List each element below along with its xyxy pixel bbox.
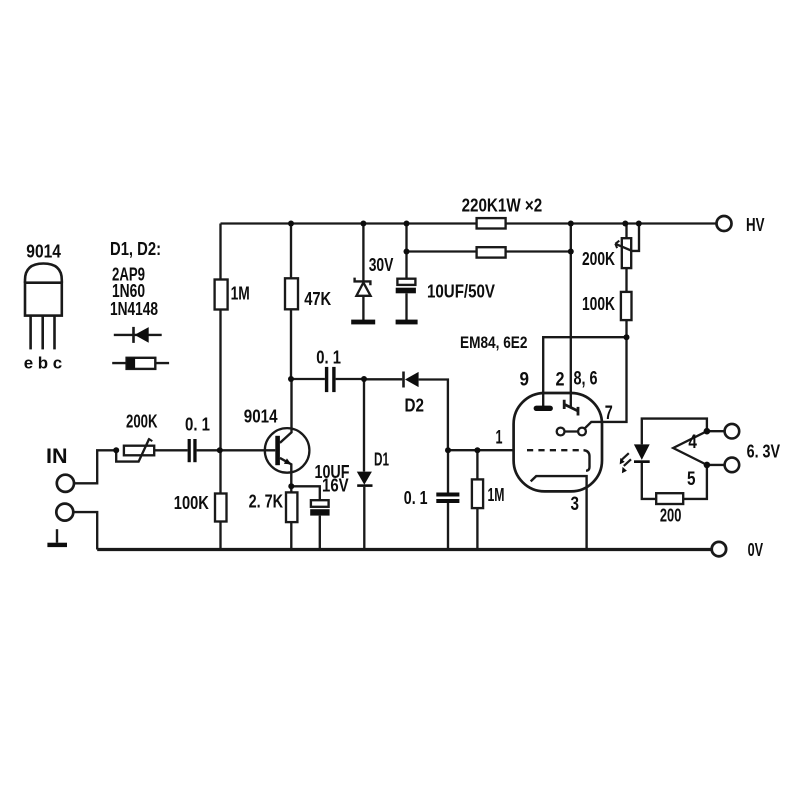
potentiometer 200K wiper arrow (615, 224, 639, 251)
svg-text:1N60: 1N60 (112, 281, 145, 301)
potentiometer 200K body (622, 238, 631, 268)
resistor 220K1W (lower) (477, 247, 506, 257)
capacitor 10UF/50V bottom plate (396, 288, 416, 294)
tube EM84 envelope (514, 393, 602, 491)
resistor 1M (bias) (215, 280, 228, 310)
node input pot (113, 447, 119, 453)
legend diode symbol triangle (135, 327, 149, 343)
diode D2 triangle (405, 372, 419, 387)
svg-text:1M: 1M (231, 284, 250, 304)
potentiometer 200K (input) wiper (116, 439, 149, 462)
tube grid hook (584, 450, 590, 471)
wire collector to 0.1 cap (291, 378, 325, 380)
diode D1 triangle (357, 472, 372, 485)
node 47K top (288, 221, 294, 227)
wire emitter to ground rail through 2.7K (290, 486, 292, 549)
wire pot to coupling cap (154, 449, 187, 451)
legend package diode cathode band (127, 358, 136, 369)
capacitor 0.1 (grid) wire (447, 450, 449, 492)
svg-text:1N4148: 1N4148 (110, 299, 158, 319)
junction dots (113, 221, 710, 490)
legend diode symbol wire (114, 334, 162, 336)
ground stub (input) (56, 529, 58, 543)
potentiometer 200K (input) body (124, 446, 154, 456)
wire bypass cap to ground rail (319, 516, 321, 550)
terminal 0V (712, 542, 726, 556)
wire node to D2 (364, 378, 402, 380)
legend transistor pin b (41, 316, 44, 350)
zener diode 30V triangle (356, 283, 370, 296)
svg-text:220K1W ×2: 220K1W ×2 (462, 196, 543, 216)
wire D1 to ground rail (363, 487, 365, 550)
legend diode symbol cathode bar (132, 327, 135, 343)
transistor base bar (275, 436, 280, 465)
svg-text:HV: HV (746, 215, 765, 235)
svg-text:0. 1: 0. 1 (185, 415, 210, 435)
node grid 1M (474, 447, 480, 453)
node base divider (217, 447, 223, 453)
node pin2 rail (568, 221, 574, 227)
light emission arrow 1 (622, 453, 629, 460)
indicator LED top wire (642, 419, 707, 445)
node 100K bottom (624, 334, 630, 340)
wire to heater terminal 4 (707, 430, 725, 432)
zener diode 30V cathode bar (355, 278, 371, 286)
legend transistor package dome (25, 264, 62, 283)
svg-text:IN: IN (46, 445, 68, 468)
wire cap to D2 node (336, 378, 364, 380)
wire cap to base (197, 449, 276, 451)
ground bar (input) (47, 543, 67, 547)
wire to heater terminal 5 (707, 464, 725, 466)
transistor 9014 circle (265, 428, 310, 473)
svg-text:200K: 200K (582, 249, 615, 269)
potentiometer 200K (HV) vertical wire (625, 224, 627, 239)
wire cap to ground (405, 293, 407, 320)
svg-text:0. 1: 0. 1 (316, 347, 341, 367)
resistor 1M (grid) body (472, 479, 483, 508)
transistor collector wire (280, 379, 292, 443)
capacitor 0.1 (input) plates (188, 439, 191, 462)
legend transistor pin e (29, 316, 32, 350)
potentiometer 200K (input) wiper arrowhead (148, 438, 152, 441)
svg-text:D2: D2 (405, 396, 425, 416)
potentiometer 200K wiper arrowhead (615, 241, 619, 248)
svg-text:5: 5 (687, 469, 696, 490)
svg-text:9014: 9014 (26, 242, 61, 262)
node filter cap top (404, 221, 410, 227)
resistor 100K (bias lower) (215, 494, 227, 522)
legend package diode body (127, 358, 156, 369)
capacitor 10UF/16V top plate (311, 500, 329, 507)
resistor 100K (screen) (621, 292, 632, 320)
terminal HV (717, 216, 732, 231)
node pot top (622, 221, 628, 227)
ground bar (filter cap) (396, 320, 418, 325)
svg-text:1: 1 (496, 428, 503, 449)
wire grid cap to ground rail (447, 503, 449, 550)
wire D2 to grid node (419, 380, 448, 451)
svg-text:1M: 1M (488, 485, 505, 505)
heater bottom wire with 200 resistor (642, 463, 707, 499)
svg-text:200K: 200K (126, 412, 158, 432)
wire filter cap branch (405, 224, 407, 279)
resistor 200 (656, 493, 683, 504)
input terminal bottom (56, 504, 73, 521)
transistor emitter wire (280, 458, 291, 486)
svg-text:200: 200 (660, 505, 682, 525)
resistor 1M (grid) wire (476, 450, 478, 549)
svg-text:2. 7K: 2. 7K (249, 492, 284, 512)
svg-text:3: 3 (571, 494, 580, 515)
wire grid (pin 1) (448, 449, 514, 451)
heater chevron (673, 431, 707, 465)
indicator LED triangle (634, 444, 650, 460)
wire pot to 100K (625, 268, 627, 292)
wire input bottom terminal to ground rail (73, 512, 97, 549)
wire node to tube pin 9 (543, 337, 626, 406)
heater terminal 4 (725, 424, 740, 439)
svg-text:47K: 47K (304, 289, 331, 309)
resistor 220K1W (upper) (477, 218, 506, 228)
wire left branch vertical (rail to ground rail) (219, 224, 221, 550)
wire top HV rail (221, 222, 717, 224)
node rail2 right (568, 249, 574, 255)
svg-text:9: 9 (520, 370, 530, 391)
node heater 4 (704, 428, 711, 435)
svg-text:100K: 100K (174, 493, 209, 513)
node heater 5 (704, 462, 711, 469)
heater terminal 5 (725, 458, 740, 473)
input terminal top (57, 475, 74, 492)
light emission arrow 2 (624, 459, 631, 466)
tube cathode element and pin 3 wire (531, 476, 587, 549)
wire input top terminal to pot (74, 450, 116, 483)
capacitor 0.1 (grid) plates (436, 493, 459, 497)
wire 47K branch vertical (290, 224, 292, 380)
wire zener to ground (362, 296, 364, 320)
svg-text:30V: 30V (369, 255, 394, 275)
node zener top (360, 221, 366, 227)
capacitor 10UF/50V top plate (397, 279, 415, 285)
svg-text:EM84, 6E2: EM84, 6E2 (460, 334, 528, 352)
svg-text:7: 7 (605, 403, 613, 424)
wire 100K to node (625, 320, 627, 337)
svg-text:2: 2 (556, 370, 565, 391)
node rail2 left (404, 249, 410, 255)
tube pin 7 contact link (565, 430, 579, 432)
diode D2 cathode bar (402, 372, 405, 388)
ground bar (zener) (351, 320, 375, 325)
svg-text:D1: D1 (374, 450, 389, 470)
svg-text:0V: 0V (748, 540, 764, 560)
node detector (361, 376, 367, 382)
wire zener branch (362, 224, 364, 282)
svg-text:9014: 9014 (244, 406, 278, 426)
capacitor 0.1 (collector) plates (325, 367, 328, 392)
node grid left (445, 447, 451, 453)
legend package diode wire (112, 362, 169, 364)
legend transistor pin c (53, 316, 56, 350)
capacitor 10UF/16V bottom plate (310, 509, 329, 515)
resistor 47K (285, 278, 298, 309)
svg-text:4: 4 (688, 432, 697, 453)
diode D1 wire (363, 379, 365, 472)
resistor 2.7K (286, 492, 297, 522)
node emitter (288, 483, 294, 489)
svg-text:D1, D2:: D1, D2: (110, 239, 161, 259)
indicator LED cathode bar (634, 460, 650, 463)
tube grid dashed line (527, 449, 583, 451)
wire second rail (407, 250, 571, 252)
wire tube pin 7 to node (585, 337, 627, 428)
tube pin 2 electrode (564, 400, 578, 416)
wire emitter to bypass cap (291, 486, 320, 500)
svg-text:e b c: e b c (24, 353, 63, 372)
diode D1 cathode bar (357, 484, 372, 487)
svg-text:6. 3V: 6. 3V (747, 442, 781, 462)
svg-text:100K: 100K (582, 294, 615, 314)
node wiper rail (636, 221, 642, 227)
svg-text:16V: 16V (322, 476, 349, 496)
legend transistor package body (25, 283, 62, 316)
ground rail (97, 548, 712, 551)
transistor emitter arrowhead (284, 458, 292, 464)
node collector (288, 376, 294, 382)
svg-text:10UF/50V: 10UF/50V (427, 282, 495, 302)
wire rail to tube pin 2 (570, 224, 572, 407)
tube pin 9 electrode bar (534, 406, 553, 411)
svg-text:0. 1: 0. 1 (404, 488, 428, 508)
tube pin 7 contact circles (557, 428, 565, 436)
svg-text:8, 6: 8, 6 (574, 369, 598, 390)
